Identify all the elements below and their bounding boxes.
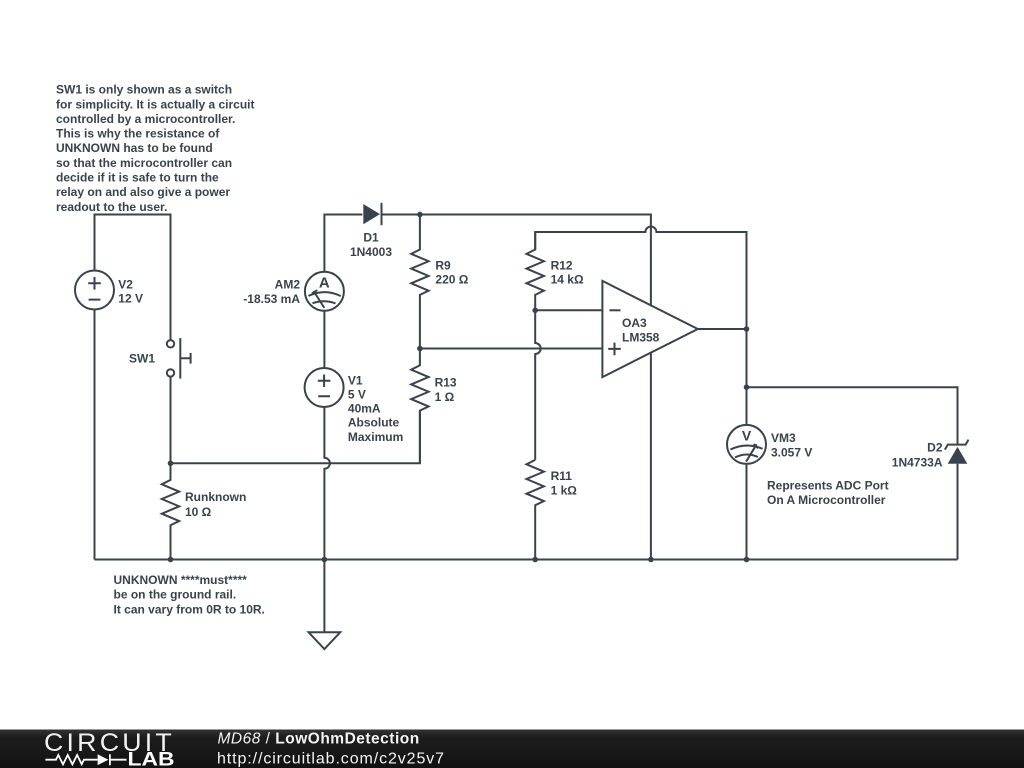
svg-text:R9: R9 — [435, 259, 451, 273]
wire V2 top to SW1 top — [95, 215, 171, 341]
resistor R11 — [527, 460, 544, 560]
wire D2 branch top — [747, 387, 958, 444]
label Runknown 10 ohm — [185, 490, 246, 519]
label R11 1k — [551, 469, 578, 498]
label OA3 LM358 — [622, 316, 660, 344]
diode D1 — [363, 203, 381, 225]
svg-text:SW1 is only shown as a switch: SW1 is only shown as a switch — [56, 83, 232, 97]
svg-text:UNKNOWN has to be found: UNKNOWN has to be found — [56, 141, 213, 155]
svg-text:1N4003: 1N4003 — [350, 245, 392, 259]
svg-text:10 Ω: 10 Ω — [185, 505, 212, 519]
node op-amp V- ground junction — [648, 557, 654, 563]
svg-text:V: V — [742, 427, 752, 443]
node V1 ground junction — [322, 557, 328, 563]
svg-text:relay on and also give a power: relay on and also give a power — [56, 185, 230, 199]
svg-text:SW1: SW1 — [129, 352, 155, 366]
ammeter AM2 — [305, 272, 344, 311]
label R9 220 ohm — [435, 259, 468, 287]
zener diode D2 — [945, 440, 969, 464]
svg-text:AM2: AM2 — [275, 277, 301, 291]
svg-text:VM3: VM3 — [771, 431, 796, 445]
label VM3 value — [771, 431, 812, 459]
svg-text:Maximum: Maximum — [348, 430, 403, 444]
svg-text:14 kΩ: 14 kΩ — [551, 273, 584, 287]
node VM3 ground junction — [744, 557, 750, 563]
note unknown must be on ground rail — [114, 573, 265, 616]
svg-text:Runknown: Runknown — [185, 490, 246, 504]
note annotation top-left — [56, 83, 255, 214]
svg-text:1 Ω: 1 Ω — [435, 390, 455, 404]
svg-text:R11: R11 — [551, 469, 573, 483]
svg-text:5 V: 5 V — [348, 388, 366, 402]
voltmeter VM3 — [727, 425, 766, 464]
wire D2 bottom — [957, 464, 959, 560]
svg-text:It can vary from 0R to 10R.: It can vary from 0R to 10R. — [114, 602, 265, 616]
resistor Runknown — [162, 463, 179, 559]
wire SW1 bottom — [170, 377, 172, 464]
voltage source V2 — [75, 271, 114, 310]
wire output column to VM3 — [746, 329, 748, 425]
label D2 1N4733A — [892, 441, 943, 470]
node VM3-D2 junction — [744, 384, 750, 390]
label R12 14k — [551, 259, 584, 287]
svg-text:be on the ground rail.: be on the ground rail. — [114, 588, 237, 602]
svg-text:so that the microcontroller ca: so that the microcontroller can — [56, 156, 232, 170]
wire op-amp output — [698, 328, 747, 330]
svg-text:controlled by a microcontrolle: controlled by a microcontroller. — [56, 112, 235, 126]
svg-text:readout to the user.: readout to the user. — [56, 200, 167, 214]
node output junction — [744, 326, 750, 332]
switch SW1 — [167, 338, 191, 379]
svg-text:Represents ADC Port: Represents ADC Port — [767, 478, 889, 492]
svg-text:-18.53 mA: -18.53 mA — [243, 292, 300, 306]
note represents ADC port — [767, 478, 889, 506]
label V2 12V — [118, 278, 143, 306]
op-amp OA3 — [602, 281, 697, 377]
svg-text:V1: V1 — [348, 373, 363, 387]
node R12 minus junction — [532, 308, 538, 314]
ground symbol — [309, 560, 341, 650]
label D1 1N4003 — [350, 230, 392, 259]
label V1 5V — [348, 373, 403, 443]
svg-text:On A Microcontroller: On A Microcontroller — [767, 493, 886, 507]
svg-text:D1: D1 — [363, 230, 379, 244]
resistor R9 — [411, 215, 428, 349]
wire D1 cathode to op-amp V+ pin with hop — [382, 215, 651, 306]
wire R12 to R11 column with hop — [535, 310, 541, 460]
voltage source V1 — [305, 368, 344, 407]
svg-text:This is why the resistance of: This is why the resistance of — [56, 127, 220, 141]
svg-text:for simplicity. It is actually: for simplicity. It is actually a circuit — [56, 97, 255, 111]
resistor R12 — [527, 232, 544, 310]
wire AM2 bottom to V1 top — [323, 311, 325, 368]
svg-text:220 Ω: 220 Ω — [435, 273, 468, 287]
node Runknown top junction — [168, 461, 174, 467]
node R11 ground junction — [532, 557, 538, 563]
svg-text:http://circuitlab.com/c2v25v7: http://circuitlab.com/c2v25v7 — [217, 750, 445, 767]
svg-text:R13: R13 — [435, 375, 457, 389]
svg-text:Absolute: Absolute — [348, 416, 400, 430]
wire V1 bottom to ground rail with hop — [324, 407, 330, 560]
wire AM2 top — [324, 215, 362, 272]
node R9-R13 plus junction — [417, 346, 423, 352]
svg-text:1N4733A: 1N4733A — [892, 455, 943, 469]
svg-text:A: A — [319, 275, 330, 292]
node D1-R9 junction — [417, 212, 423, 218]
svg-text:40mA: 40mA — [348, 402, 381, 416]
wire plus input — [420, 348, 603, 350]
label AM2 value — [243, 277, 300, 306]
wire horizontal Runknown to R13 bottom — [171, 410, 420, 463]
node Runknown ground junction — [168, 557, 174, 563]
wire VM3 bottom — [746, 464, 748, 560]
wire V2 bottom — [94, 310, 96, 560]
footer bar — [0, 730, 1024, 768]
svg-text:LM358: LM358 — [622, 330, 660, 344]
svg-text:D2: D2 — [927, 441, 943, 455]
wire op-amp V- pin — [650, 353, 652, 560]
svg-text:3.057 V: 3.057 V — [771, 445, 812, 459]
svg-text:OA3: OA3 — [622, 316, 647, 330]
svg-text:V2: V2 — [118, 278, 133, 292]
wire minus input — [535, 309, 602, 311]
svg-text:decide if it is safe to turn t: decide if it is safe to turn the — [56, 171, 219, 185]
svg-text:R12: R12 — [551, 259, 573, 273]
resistor R13 — [411, 349, 428, 464]
svg-text:12 V: 12 V — [118, 292, 143, 306]
svg-text:UNKNOWN ****must****: UNKNOWN ****must**** — [114, 573, 248, 587]
svg-text:MD68 / LowOhmDetection: MD68 / LowOhmDetection — [218, 731, 420, 748]
svg-text:1 kΩ: 1 kΩ — [551, 484, 578, 498]
svg-text:LAB: LAB — [128, 749, 175, 768]
label R13 1 ohm — [435, 375, 457, 404]
logo resistor-diode squiggle — [45, 754, 126, 765]
wire feedback loop — [535, 227, 746, 329]
wire ground rail — [95, 559, 958, 561]
